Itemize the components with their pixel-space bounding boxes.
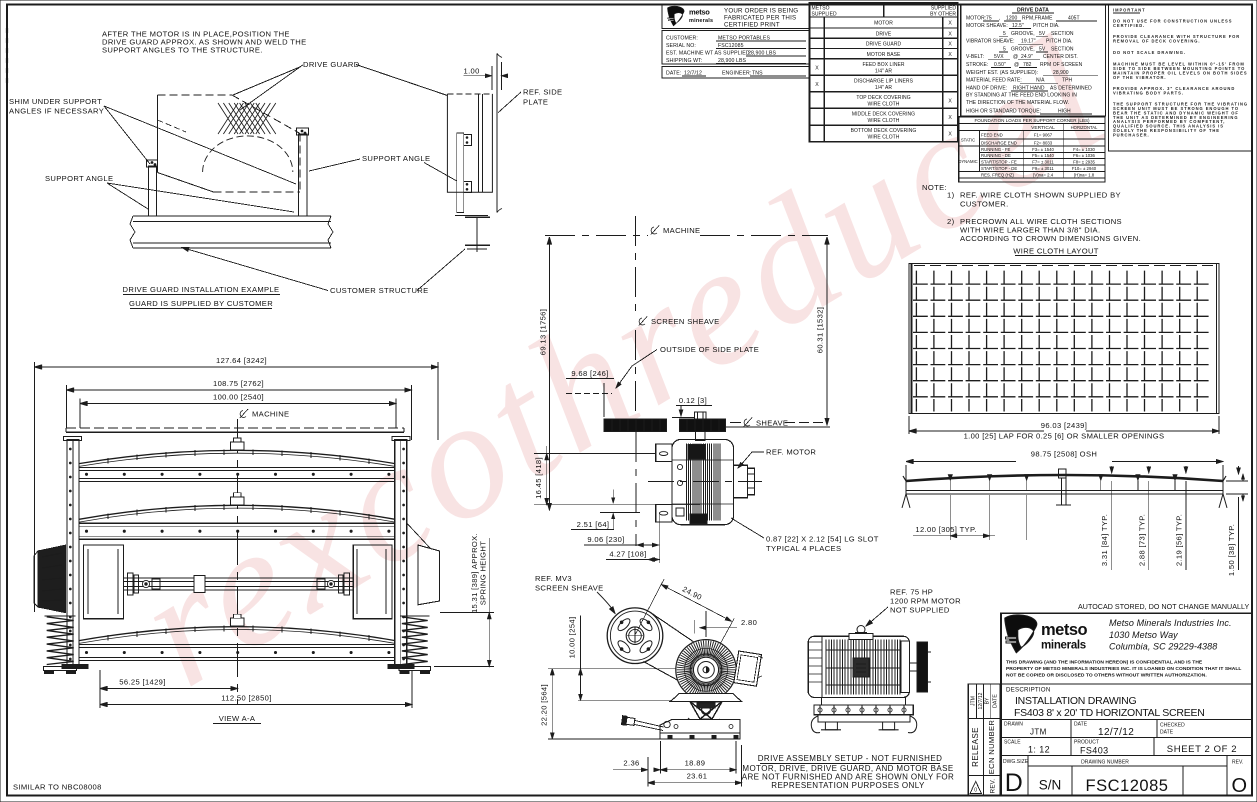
svg-text:19.17": 19.17" [1021,39,1036,45]
svg-text:FS403: FS403 [1080,746,1109,756]
svg-text:JTM: JTM [971,696,977,706]
svg-text:F3= ± 1540: F3= ± 1540 [1032,147,1054,152]
svg-text:WIRE CLOTH LAYOUT: WIRE CLOTH LAYOUT [1013,247,1099,256]
svg-text:(H)na= 1.8: (H)na= 1.8 [1074,173,1095,178]
dim 24.90 [635,579,665,636]
svg-text:MOTOR SHEAVE:: MOTOR SHEAVE: [966,23,1008,29]
drawing number row [1001,755,1252,757]
svg-text:N/A: N/A [1036,78,1045,84]
svg-text:96.03 [2439]: 96.03 [2439] [1041,421,1087,430]
svg-text:DATE: DATE [1160,730,1174,736]
svg-text:REF. SIDE: REF. SIDE [523,88,562,97]
svg-text:ENGINEER:: ENGINEER: [722,71,751,77]
svg-text:5VX: 5VX [994,54,1004,60]
drive shaft assembly [123,578,353,590]
svg-text:DRIVE ASSEMBLY SETUP - NOT FUR: DRIVE ASSEMBLY SETUP - NOT FURNISHED [758,754,943,763]
motor base bracket [671,694,742,702]
svg-text:1200: 1200 [1006,16,1017,22]
svg-text:PROPERTY OF METSO MINERALS IND: PROPERTY OF METSO MINERALS INDUSTRIES IN… [1006,666,1241,672]
svg-text:1.00: 1.00 [464,67,480,76]
svg-text:F1= 9067: F1= 9067 [1034,133,1053,138]
svg-text:RPM OF SCREEN: RPM OF SCREEN [1040,62,1083,68]
motor (front view) [676,640,736,700]
svg-text:MOTOR:: MOTOR: [966,16,986,22]
weld area crosshatch [218,103,276,134]
svg-text:MOTOR: MOTOR [874,21,893,27]
svg-text:RUNNING - FE: RUNNING - FE [981,147,1010,152]
guard clearance arc (dashed) [203,136,293,172]
svg-text:0.12 [3]: 0.12 [3] [679,396,707,405]
svg-text:HAND OF DRIVE:: HAND OF DRIVE: [966,85,1007,91]
svg-text:MOTOR BASE: MOTOR BASE [867,52,901,58]
drive data box [961,5,1106,117]
svg-text:DRAWN: DRAWN [1004,722,1023,728]
svg-text:782: 782 [1023,62,1032,68]
svg-text:SHEAVE: SHEAVE [756,419,788,428]
svg-text:Columbia, SC 29229-4388: Columbia, SC 29229-4388 [1109,642,1217,652]
svg-text:CERTIFIED PRINT: CERTIFIED PRINT [724,22,780,29]
svg-text:JTM: JTM [1030,728,1047,737]
svg-text:metso: metso [1041,621,1088,639]
revision sidebar [968,684,1000,796]
side view sketch: guard box [447,94,492,192]
svg-text:28,900 LBS: 28,900 LBS [748,51,777,57]
svg-text:WIRE CLOTH: WIRE CLOTH [868,135,900,141]
svg-text:MIDDLE DECK COVERING: MIDDLE DECK COVERING [852,112,915,118]
svg-text:2.80: 2.80 [741,618,757,627]
svg-text:SPRING HEIGHT: SPRING HEIGHT [479,541,488,605]
svg-text:ANGLES IF NECESSARY: ANGLES IF NECESSARY [9,107,104,116]
svg-text:12/7/12: 12/7/12 [684,71,702,77]
svg-text:100.00 [2540]: 100.00 [2540] [213,393,264,402]
svg-text:@: @ [1013,54,1018,60]
svg-text:DRAWING NUMBER: DRAWING NUMBER [1081,760,1129,766]
svg-text:PLATE: PLATE [523,98,548,107]
svg-text:F6= ± 1036: F6= ± 1036 [1073,153,1095,158]
svg-text:X: X [948,42,952,48]
svg-text:X: X [948,98,952,104]
svg-text:16.45 [418]: 16.45 [418] [534,457,543,499]
svg-text:DISCHARGE LIP LINERS: DISCHARGE LIP LINERS [854,78,914,84]
svg-text:REPRESENTATION PURPOSES ONLY: REPRESENTATION PURPOSES ONLY [771,781,925,790]
svg-text:HIGH OR STANDARD TORQUE:: HIGH OR STANDARD TORQUE: [966,108,1041,114]
svg-text:28,900: 28,900 [1053,70,1069,76]
title block frame [1001,613,1252,795]
svg-text:TNS: TNS [752,71,763,77]
svg-text:2.51 [64]: 2.51 [64] [577,520,610,529]
svg-text:WIRE CLOTH: WIRE CLOTH [868,118,900,124]
svg-text:metso: metso [689,8,710,17]
svg-text:TOP DECK COVERING: TOP DECK COVERING [856,95,910,101]
svg-text:FOUNDATION LOADS PER SUPPORT C: FOUNDATION LOADS PER SUPPORT CORNER (LBS… [974,118,1090,123]
svg-text:12/7/12: 12/7/12 [1098,727,1134,738]
svg-text:F5= ± 1540: F5= ± 1540 [1032,153,1054,158]
metso logo large [1005,615,1037,653]
svg-text:2.36: 2.36 [623,759,639,768]
svg-text:F9= ± 3011: F9= ± 3011 [1032,166,1054,171]
svg-text:RPM,FRAME: RPM,FRAME [1022,16,1053,22]
crown center fixture [1059,469,1067,478]
svg-text:METSO PORTABLES: METSO PORTABLES [718,36,770,42]
svg-text:FS403 8' x 20' TD HORIZONTA: FS403 8' x 20' TD HORIZONTAL SCREEN [1014,707,1205,719]
svg-text:X: X [948,132,952,138]
svg-text:5V: 5V [1039,31,1046,37]
svg-text:IMPORTANT: IMPORTANT [1113,8,1146,13]
svg-text:MATERIAL FEED RATE:: MATERIAL FEED RATE: [966,78,1022,84]
svg-text:1030 Metso Way: 1030 Metso Way [1109,630,1178,640]
svg-text:1/4" AR: 1/4" AR [875,68,892,74]
slide base plate [660,720,740,740]
svg-text:0.87 [22] X 2.12 [54] LG SLOT: 0.87 [22] X 2.12 [54] LG SLOT [766,535,879,544]
svg-text:127.64 [3242]: 127.64 [3242] [216,356,267,365]
svg-text:5V: 5V [1039,46,1046,52]
svg-text:24.9": 24.9" [1021,54,1033,60]
svg-text:2): 2) [947,217,955,226]
svg-text:PURCHASER.: PURCHASER. [1113,132,1150,137]
svg-text:PITCH DIA.: PITCH DIA. [1033,23,1060,29]
svg-text:REF. 75 HP: REF. 75 HP [890,588,933,597]
right support angle post [299,134,308,216]
svg-text:DRIVE: DRIVE [876,31,892,37]
svg-text:THE DIRECTION OF THE MATERIAL: THE DIRECTION OF THE MATERIAL FLOW. [966,100,1069,106]
svg-text:STATIC: STATIC [961,138,975,143]
svg-text:REF. MOTOR: REF. MOTOR [766,448,816,457]
support angle in side view [457,133,464,213]
svg-text:SUPPORT ANGLES TO THE STRUCTUR: SUPPORT ANGLES TO THE STRUCTURE. [102,46,263,55]
svg-text:DATE: DATE [1074,722,1088,728]
svg-text:DRIVE GUARD INSTALLATION EXAMP: DRIVE GUARD INSTALLATION EXAMPLE [123,285,280,294]
customer structure beam [133,215,331,217]
svg-text:23.61: 23.61 [687,772,708,781]
svg-text:SUPPORT ANGLE: SUPPORT ANGLE [362,154,430,163]
svg-text:10.00 [254]: 10.00 [254] [568,617,577,659]
svg-text:RELEASE: RELEASE [971,727,980,767]
right column [395,440,407,665]
vibrator mechanism plates [84,545,124,619]
svg-text:REV.: REV. [1232,760,1243,766]
svg-text:SHEET 2 OF 2: SHEET 2 OF 2 [1167,744,1237,755]
svg-text:F2= 8033: F2= 8033 [1034,141,1053,146]
svg-text:minerals: minerals [1041,640,1086,652]
svg-text:REF. WIRE CLOTH SHOWN SUPPLIED: REF. WIRE CLOTH SHOWN SUPPLIED BY [960,191,1121,200]
svg-text:F8= ± 2935: F8= ± 2935 [1073,160,1095,165]
svg-text:VIBRATING BODY PARTS.: VIBRATING BODY PARTS. [1113,90,1184,95]
svg-text:DWG.SIZE: DWG.SIZE [1003,759,1029,765]
svg-text:60.31 [1532]: 60.31 [1532] [816,307,825,353]
svg-text:ECN NUMBER: ECN NUMBER [987,720,996,775]
svg-text:112.50 [2850]: 112.50 [2850] [221,694,271,703]
spring left [47,617,74,665]
svg-text:2.88 [73] TYP.: 2.88 [73] TYP. [1137,514,1146,566]
svg-text:22.20 [564]: 22.20 [564] [540,684,549,726]
right support bracket [418,545,440,605]
motor feet (top view) [656,444,672,462]
svg-text:DATE: DATE [993,694,999,708]
motor (top view) [672,439,734,524]
svg-text:WIRE CLOTH: WIRE CLOTH [868,101,900,107]
svg-text:SECTION: SECTION [1051,31,1074,37]
motor horizontal centerline [648,481,762,483]
svg-text:28,900 LBS: 28,900 LBS [718,58,747,64]
svg-text:VIBRATOR SHEAVE:: VIBRATOR SHEAVE: [966,39,1015,45]
drawn/date/checked row [1001,719,1252,721]
jack/adjuster under motor [690,702,722,719]
svg-text:12/7/12: 12/7/12 [978,692,984,709]
header: date/engineer box [662,67,809,79]
drive guard outline (dashed) [158,94,233,96]
svg-text:AUTOCAD STORED, DO NOT CHANGE: AUTOCAD STORED, DO NOT CHANGE MANUALLY [1078,603,1249,611]
svg-text:SECTION: SECTION [1051,46,1074,52]
svg-text:SCREEN SHEAVE: SCREEN SHEAVE [651,317,720,326]
svg-text:DATE:: DATE: [666,71,681,77]
svg-text:SHIPPING WT:: SHIPPING WT: [666,58,702,64]
svg-text:REV.: REV. [990,779,997,794]
svg-text:0.50": 0.50" [994,62,1006,68]
svg-text:4.27 [108]: 4.27 [108] [609,550,646,559]
svg-text:OF THE VIBRATOR.: OF THE VIBRATOR. [1113,75,1166,80]
sheave bushing [695,412,707,419]
svg-text:CUSTOMER:: CUSTOMER: [666,36,698,42]
svg-text:AS DETERMINED: AS DETERMINED [1050,85,1092,91]
svg-text:1.00 [25] LAP FOR 0.25 [6] OR: 1.00 [25] LAP FOR 0.25 [6] OR SMALLER OP… [964,432,1165,441]
svg-text:F7= ± 3011: F7= ± 3011 [1032,160,1054,165]
svg-text:CUSTOMER.: CUSTOMER. [960,200,1009,209]
svg-text:D: D [1005,769,1023,797]
svg-text:minerals: minerals [689,18,713,24]
motor centerline vertical [635,432,637,546]
crown rise dims (rotated) [1111,481,1113,570]
header: customer info box [662,31,809,65]
svg-text:9.06 [230]: 9.06 [230] [587,535,624,544]
scale/product/sheet row [1001,737,1252,739]
svg-text:DRIVE GUARD: DRIVE GUARD [866,42,902,48]
svg-text:Metso Minerals Industries Inc.: Metso Minerals Industries Inc. [1109,618,1232,628]
svg-text:DISCHARGE END: DISCHARGE END [981,141,1017,146]
svg-text:FEED END: FEED END [981,133,1003,138]
I-beam customer structure [455,215,488,217]
svg-text:18.89: 18.89 [685,759,706,768]
motor shaft bracket (top view) [734,465,748,498]
svg-text:0: 0 [974,788,977,794]
crown beam arc [906,475,1223,481]
svg-text:108.75 [2762]: 108.75 [2762] [213,379,264,388]
svg-text:WEIGHT EST. (AS SUPPLIED):: WEIGHT EST. (AS SUPPLIED): [966,70,1038,76]
svg-text:FSC12085: FSC12085 [1086,777,1169,795]
svg-text:ACCORDING TO CROWN DIMENSIONS: ACCORDING TO CROWN DIMENSIONS GIVEN. [960,234,1141,243]
svg-text:X: X [815,65,819,71]
left column [67,440,79,665]
watermark [107,0,1139,722]
spring right [402,617,428,665]
motor base (side) [822,697,906,705]
svg-text:YOUR ORDER IS BEING: YOUR ORDER IS BEING [724,8,798,15]
v-belt [651,613,709,653]
svg-text:REF. MV3: REF. MV3 [535,574,572,583]
svg-text:F10= ± 2940: F10= ± 2940 [1072,166,1097,171]
svg-text:MACHINE: MACHINE [663,226,700,235]
svg-text:BY STANDING AT THE FEED END LO: BY STANDING AT THE FEED END LOOKING IN [966,93,1077,99]
ref side plate line [496,53,498,212]
svg-text:1/4" AR: 1/4" AR [875,85,892,91]
svg-text:GROOVE,: GROOVE, [1011,31,1035,37]
description row [1001,683,1252,685]
screen sheave centerline [635,216,637,312]
motor (side view) [857,626,865,634]
svg-text:2.19 [56] TYP.: 2.19 [56] TYP. [1174,514,1183,566]
svg-text:FABRICATED PER THIS: FABRICATED PER THIS [724,15,796,22]
svg-text:RIGHT HAND: RIGHT HAND [1013,85,1045,91]
svg-text:STROKE:: STROKE: [966,62,988,68]
deck 1 [79,450,395,463]
svg-text:SHIM UNDER SUPPORT: SHIM UNDER SUPPORT [9,97,102,106]
svg-text:NOT BE COPIED OR DISCLOSED TO: NOT BE COPIED OR DISCLOSED TO OTHERS WIT… [1006,673,1207,679]
svg-text:F4= ± 1030: F4= ± 1030 [1073,147,1095,152]
svg-text:START/STOP - DE: START/STOP - DE [981,166,1017,171]
svg-text:405T: 405T [1068,16,1080,22]
svg-text:GROOVE,: GROOVE, [1011,46,1035,52]
header: certified print box [662,5,809,29]
svg-text:75: 75 [986,16,992,22]
svg-text:HIGH: HIGH [1058,108,1071,114]
svg-text:CUSTOMER STRUCTURE: CUSTOMER STRUCTURE [330,286,429,295]
svg-text:MACHINE: MACHINE [252,410,289,419]
deck 2 [79,505,395,519]
svg-text:NOTE:: NOTE: [922,183,947,192]
column feet [62,665,88,669]
screen sheave (front) [607,608,663,664]
svg-text:1200 RPM MOTOR: 1200 RPM MOTOR [890,597,961,606]
svg-text:69.13 [1756]: 69.13 [1756] [539,309,548,355]
svg-text:98.75 [2508] OSH: 98.75 [2508] OSH [1031,450,1097,459]
svg-text:TPH: TPH [1062,78,1072,84]
svg-text:VIEW A-A: VIEW A-A [219,714,256,723]
svg-text:BY: BY [984,697,990,704]
svg-text:X: X [948,115,952,121]
dim 12.00 typ [949,495,951,540]
svg-text:12.00 [305] TYP.: 12.00 [305] TYP. [915,525,976,534]
svg-text:CENTER DIST.: CENTER DIST. [1043,54,1078,60]
svg-text:X: X [815,82,819,88]
svg-text:3.31 [84] TYP.: 3.31 [84] TYP. [1100,514,1109,566]
svg-text:CHECKED: CHECKED [1160,723,1185,729]
svg-text:CERTIFIED.: CERTIFIED. [1113,23,1145,28]
svg-text:OUTSIDE OF SIDE PLATE: OUTSIDE OF SIDE PLATE [660,345,759,354]
svg-text:GUARD IS SUPPLIED BY CUSTOMER: GUARD IS SUPPLIED BY CUSTOMER [129,299,273,308]
screen sheave (section, black) [604,419,666,432]
svg-text:START/STOP - FE: START/STOP - FE [981,160,1017,165]
svg-text:1: 12: 1: 12 [1028,745,1050,755]
motor shaft + sheave (side) [909,663,917,671]
svg-text:5: 5 [1003,31,1006,37]
svg-text:THIS DRAWING (AND THE INFORMAT: THIS DRAWING (AND THE INFORMATION HEREON… [1006,660,1203,666]
svg-text:O: O [1232,775,1248,797]
svg-text:X: X [948,21,952,27]
svg-text:DO NOT SCALE DRAWING.: DO NOT SCALE DRAWING. [1113,50,1186,55]
svg-text:9.68 [246]: 9.68 [246] [571,369,608,378]
svg-text:S/N: S/N [1039,778,1062,793]
dim 15.31 spring height [440,612,494,614]
svg-text:NOT SUPPLIED: NOT SUPPLIED [890,606,950,615]
important notes box [1109,5,1252,152]
metso supplied / by other table [810,3,958,142]
svg-text:TYPICAL 4 PLACES: TYPICAL 4 PLACES [766,544,841,553]
svg-text:RUNNING - DE: RUNNING - DE [981,153,1011,158]
dim 96.03 under grid [908,416,910,434]
svg-text:BOTTOM DECK COVERING: BOTTOM DECK COVERING [851,128,917,134]
motor shaft stub [696,432,706,441]
dim 60.31 vertical [826,237,828,425]
svg-text:SUPPORT ANGLE: SUPPORT ANGLE [45,174,113,183]
svg-text:1.50 [38] TYP.: 1.50 [38] TYP. [1227,524,1236,576]
left support angle post [149,166,157,216]
svg-text:X: X [948,52,952,58]
crown clips [948,475,952,481]
svg-text:X: X [948,31,952,37]
dim 16.45 [534,453,656,455]
svg-text:EST. MACHINE WT AS SUPPLIED:: EST. MACHINE WT AS SUPPLIED: [666,51,751,57]
svg-text:RES. FREQ (HZ): RES. FREQ (HZ) [981,173,1015,178]
svg-text:SERIAL NO:: SERIAL NO: [666,43,696,49]
dim 69.13 vertical [548,237,550,510]
svg-text:FEED BOX LINER: FEED BOX LINER [862,62,904,68]
svg-text:12.5": 12.5" [1012,23,1024,29]
left discharge bracket (dark) [38,545,66,613]
machine top band [66,427,404,429]
metso logo small [667,6,684,26]
svg-text:5: 5 [1003,46,1006,52]
svg-text:SCALE: SCALE [1004,740,1021,746]
svg-text:56.25 [1429]: 56.25 [1429] [119,678,165,687]
svg-text:INSTALLATION DRAWING: INSTALLATION DRAWING [1015,695,1136,707]
svg-text:REMOVAL OF DECK COVERING.: REMOVAL OF DECK COVERING. [1113,38,1201,43]
svg-text:FSC12085: FSC12085 [718,43,744,49]
svg-text:(V)na= 2.4: (V)na= 2.4 [1033,173,1054,178]
svg-text:DRIVE GUARD: DRIVE GUARD [303,60,360,69]
wire cloth grid [909,264,1219,414]
deck 3 [79,627,395,641]
svg-text:DYNAMIC: DYNAMIC [958,159,977,164]
svg-text:DESCRIPTION: DESCRIPTION [1006,687,1051,694]
svg-text:V-BELT:: V-BELT: [966,54,984,60]
svg-text:1): 1) [947,191,955,200]
svg-text:HORIZONTAL: HORIZONTAL [1071,125,1098,130]
centerline machine (middle) [545,235,648,237]
svg-text:@: @ [1014,62,1019,68]
svg-text:VERTICAL: VERTICAL [1031,125,1055,131]
svg-text:,: , [999,16,1000,22]
svg-text:PITCH DIA.: PITCH DIA. [1046,39,1073,45]
bottom dims [660,741,662,774]
motor terminal box [734,651,762,686]
svg-text:SIMILAR TO NBC08008: SIMILAR TO NBC08008 [13,783,102,792]
adjusting rod [621,716,664,731]
svg-text:SCREEN SHEAVE: SCREEN SHEAVE [535,584,604,593]
